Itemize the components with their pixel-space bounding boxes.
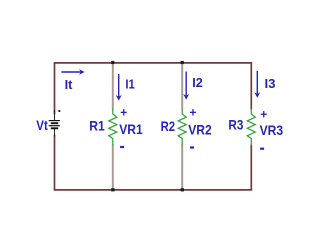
svg-text:Vt: Vt <box>36 117 48 133</box>
svg-text:I3: I3 <box>265 76 276 91</box>
svg-text:I2: I2 <box>192 75 203 90</box>
svg-text:VR3: VR3 <box>260 122 284 138</box>
svg-text:R2: R2 <box>161 118 176 134</box>
svg-text:R1: R1 <box>89 117 105 133</box>
svg-text:It: It <box>65 77 73 92</box>
svg-text:I1: I1 <box>125 77 134 92</box>
svg-text:R3: R3 <box>228 117 243 133</box>
svg-text:VR1: VR1 <box>119 121 143 137</box>
svg-text:VR2: VR2 <box>188 122 212 138</box>
